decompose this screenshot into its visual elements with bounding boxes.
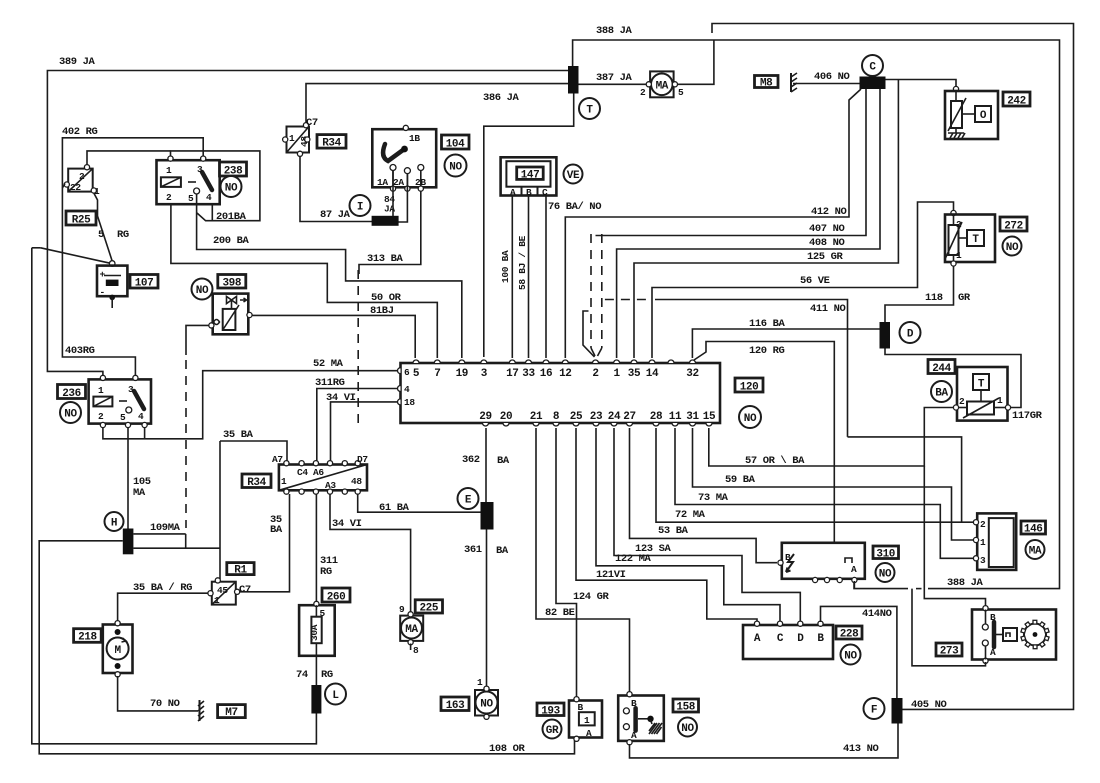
svg-text:A: A	[754, 633, 761, 645]
wire 116 BA (ECU pin 32 to connector D)	[692, 318, 879, 358]
svg-text:D: D	[797, 633, 804, 645]
svg-text:2: 2	[956, 219, 962, 230]
svg-text:2: 2	[592, 368, 598, 380]
component 225 (MA sensor)	[399, 604, 423, 656]
component 147 (diagnostic)	[501, 157, 557, 198]
node C circle	[862, 55, 883, 76]
svg-text:24: 24	[608, 411, 621, 423]
connector R34 bottom	[272, 454, 368, 494]
svg-text:C7: C7	[306, 117, 318, 129]
motor 218 (pump)	[103, 621, 133, 677]
wire R25 pin2 to relay coil line	[87, 151, 171, 165]
svg-text:I: I	[357, 202, 363, 214]
label 193	[537, 703, 564, 718]
label 238	[220, 162, 247, 178]
svg-text:225: 225	[419, 603, 438, 615]
svg-text:107: 107	[135, 278, 154, 290]
svg-text:403RG: 403RG	[65, 345, 95, 357]
node L circle	[325, 684, 346, 705]
fusible link R25	[64, 165, 100, 197]
wire 56 VE (ECU pin 14 to 272 pin 2)	[652, 202, 954, 358]
svg-text:272: 272	[1004, 221, 1023, 233]
svg-text:16: 16	[540, 368, 552, 380]
wire 82 BE (ECU pin 21 to 158 B)	[536, 428, 630, 692]
node E circle	[458, 488, 479, 509]
svg-text:411 NO: 411 NO	[810, 303, 846, 315]
svg-text:L: L	[332, 690, 339, 702]
svg-text:273: 273	[940, 646, 959, 658]
svg-text:260: 260	[327, 592, 346, 604]
wire 35 BA (236 pin 4 to R34 A7, junction to H and R1)	[133, 427, 287, 579]
label 272	[1000, 217, 1027, 233]
svg-text:1: 1	[214, 595, 220, 606]
svg-text:NO: NO	[225, 183, 238, 195]
wire 408 NO (ECU pin 1 to connector C)	[617, 89, 880, 358]
outer border top right / 405 NO	[712, 24, 1074, 712]
svg-text:313 BA: 313 BA	[367, 253, 404, 265]
svg-text:35: 35	[628, 368, 641, 380]
wire 123 SA (ECU pin 24 to 228 D)	[614, 428, 800, 622]
svg-text:21: 21	[530, 411, 543, 423]
battery 107	[97, 261, 127, 308]
svg-text:81BJ: 81BJ	[370, 305, 394, 317]
label 146	[1021, 521, 1046, 536]
svg-text:30A: 30A	[309, 624, 320, 641]
wire 117 GR (connector D to 244 pin 1)	[885, 349, 1043, 423]
svg-text:BA: BA	[935, 388, 948, 400]
svg-text:1B: 1B	[409, 133, 420, 144]
relay 238	[157, 156, 220, 204]
node D circle	[900, 322, 921, 343]
svg-text:11: 11	[669, 411, 682, 423]
svg-text:117GR: 117GR	[1012, 410, 1043, 422]
svg-text:R34: R34	[247, 477, 266, 489]
svg-text:RG: RG	[321, 669, 333, 681]
wire 73 MA (ECU pin 11 to 146 pin 3)	[675, 428, 974, 558]
svg-text:NO: NO	[681, 723, 694, 735]
wire 406 NO	[793, 71, 860, 84]
svg-text:NO: NO	[480, 699, 493, 711]
wire 105 MA (236 pin 5 to H block)	[128, 427, 151, 529]
svg-text:310: 310	[876, 549, 895, 561]
label 260	[322, 588, 350, 604]
svg-text:1: 1	[584, 715, 590, 726]
svg-text:NO: NO	[64, 409, 77, 421]
wire 362 BA (ECU pin 29 to connector E)	[462, 428, 510, 502]
svg-text:1: 1	[997, 395, 1003, 406]
wire 52 MA (236 pin 2 to ECU pin 6)	[103, 358, 398, 439]
svg-text:116 BA: 116 BA	[749, 318, 786, 330]
svg-text:2A: 2A	[393, 177, 404, 188]
wire 273 A return to 388 JA	[912, 589, 986, 666]
wire 53 BA (ECU pin 27 to 310 B)	[630, 428, 778, 563]
connector R1	[208, 578, 251, 606]
label NO for 104	[445, 155, 467, 177]
svg-text:48: 48	[351, 476, 362, 487]
wire 411 NO branch to 146 pin 2	[848, 437, 962, 522]
svg-text:412 NO: 412 NO	[811, 206, 847, 218]
wire 310 A to 388 JA line	[853, 581, 855, 589]
svg-text:193: 193	[541, 706, 560, 718]
svg-text:158: 158	[676, 702, 695, 714]
component 272 temp sensor	[945, 210, 995, 266]
node T circle	[579, 98, 600, 119]
label 120	[735, 378, 763, 394]
svg-text:RG: RG	[320, 566, 332, 578]
connector R34 top (C7)	[283, 117, 318, 156]
wire 35 BA / RG (R1 to motor 218)	[118, 582, 208, 622]
wire 403 RG (to 236 pin 3)	[62, 253, 135, 377]
svg-text:50 OR: 50 OR	[371, 292, 402, 304]
svg-text:87 JA: 87 JA	[320, 209, 351, 221]
svg-text:M: M	[114, 645, 121, 657]
svg-text:201BA: 201BA	[216, 211, 247, 223]
svg-text:C: C	[869, 62, 876, 74]
svg-text:414NO: 414NO	[862, 608, 892, 620]
svg-text:BA: BA	[496, 545, 509, 557]
wire 72 MA (ECU pin 28 to 146 pin 2)	[656, 428, 974, 522]
svg-text:398: 398	[222, 278, 241, 290]
svg-text:R1: R1	[234, 565, 247, 577]
component 242 oxygen sensor	[945, 86, 998, 139]
svg-text:408 NO: 408 NO	[809, 237, 845, 249]
svg-text:56 VE: 56 VE	[800, 275, 830, 287]
svg-text:5: 5	[120, 412, 126, 423]
svg-text:25: 25	[570, 411, 583, 423]
label R34 top	[317, 135, 346, 150]
wires 104 pins 1A 2A down to block	[393, 170, 407, 222]
wire 311 RG (ECU pin 4 to R34)	[315, 377, 398, 462]
svg-text:118: 118	[925, 292, 943, 304]
svg-text:2: 2	[959, 396, 965, 407]
wire 402 RG (to 238 pin 3)	[62, 126, 203, 253]
wire 58 BJ / BE (147 B to ECU pin 33)	[517, 196, 529, 359]
svg-text:73 MA: 73 MA	[698, 492, 729, 504]
svg-text:163: 163	[446, 700, 465, 712]
svg-text:T: T	[972, 234, 979, 246]
label NO for 228	[841, 645, 861, 665]
wire C to 242	[886, 80, 957, 88]
svg-text:34 VI: 34 VI	[326, 392, 356, 404]
wire 414 NO (228 B to connector F)	[821, 606, 897, 698]
svg-text:70 NO: 70 NO	[150, 698, 180, 710]
svg-text:RG: RG	[117, 229, 129, 241]
svg-text:C: C	[777, 633, 784, 645]
svg-text:228: 228	[840, 629, 859, 641]
svg-text:C7: C7	[239, 584, 251, 596]
svg-text:22: 22	[70, 182, 81, 193]
svg-text:H: H	[111, 518, 117, 530]
svg-text:T: T	[978, 379, 985, 391]
label MA for 146	[1026, 540, 1045, 559]
wire 70 NO (218 to ground M7)	[118, 676, 198, 711]
dashed boundary line mid	[357, 270, 359, 430]
label NO for 310	[876, 563, 895, 582]
svg-text:5: 5	[188, 193, 194, 204]
svg-text:1: 1	[166, 165, 172, 176]
svg-text:100 BA: 100 BA	[500, 250, 511, 283]
label 104	[442, 135, 470, 151]
wire R25 pin22 to border	[62, 184, 65, 189]
svg-text:57 OR \ BA: 57 OR \ BA	[745, 455, 805, 467]
svg-text:MA: MA	[1029, 546, 1042, 558]
svg-text:2: 2	[98, 411, 104, 422]
svg-text:407 NO: 407 NO	[809, 223, 845, 235]
svg-text:53 BA: 53 BA	[658, 525, 689, 537]
svg-text:-: -	[100, 287, 105, 298]
label NO for 158	[678, 718, 697, 737]
wire 411 NO (shield to connector D)	[605, 300, 848, 437]
svg-text:C: C	[542, 187, 548, 198]
svg-text:32: 32	[686, 368, 698, 380]
svg-text:244: 244	[932, 363, 951, 375]
svg-text:218: 218	[78, 632, 97, 644]
component 146	[973, 513, 1016, 570]
wire 109 MA (H block right)	[133, 522, 185, 548]
component 273	[972, 606, 1056, 664]
component 158 (switch with ground)	[618, 692, 664, 745]
wire 361 BA (connector E to 163)	[464, 530, 509, 688]
solenoid valve 398	[209, 294, 252, 335]
svg-text:T: T	[586, 105, 593, 117]
connector block E	[481, 502, 494, 530]
svg-text:R25: R25	[72, 215, 91, 227]
svg-text:52 MA: 52 MA	[313, 358, 344, 370]
label 107	[130, 275, 158, 290]
svg-text:74: 74	[296, 669, 308, 681]
wire 122 MA (ECU pin 23 to 228 C)	[596, 428, 780, 622]
ECU 120 control unit	[398, 360, 721, 426]
label 228	[836, 626, 862, 641]
svg-text:9: 9	[399, 604, 405, 615]
label 225	[415, 600, 442, 615]
wire 87 JA (R34 to block)	[300, 156, 373, 222]
shield dashed lines at ECU pin 2	[583, 234, 602, 357]
svg-text:388 JA: 388 JA	[947, 577, 984, 589]
wire 118 GR (272 pin 1 to connector D)	[885, 266, 971, 322]
svg-text:124 GR: 124 GR	[573, 591, 610, 603]
svg-text:147: 147	[521, 170, 540, 182]
svg-text:5: 5	[413, 368, 420, 380]
svg-text:1: 1	[956, 250, 962, 261]
wire 407 NO (ECU pin 2 to connector C)	[596, 89, 867, 236]
label NO for 238	[221, 176, 242, 197]
svg-text:M7: M7	[225, 707, 237, 719]
svg-text:BA: BA	[270, 524, 283, 536]
label R1	[227, 563, 254, 577]
svg-text:361: 361	[464, 544, 482, 556]
wire 388 JA inner border right side	[573, 25, 1060, 589]
svg-text:B: B	[817, 633, 824, 645]
connector block C	[860, 77, 886, 90]
svg-text:311RG: 311RG	[315, 377, 345, 389]
svg-text:8: 8	[413, 645, 419, 656]
node H circle	[105, 512, 124, 531]
wire 125 GR (ECU pin 35 up to C/242 wire)	[634, 80, 898, 359]
switch 104 (inertia switch)	[372, 125, 436, 191]
svg-text:12: 12	[559, 368, 571, 380]
wire 413 NO (158 A to connector F)	[630, 724, 899, 758]
svg-text:35 BA / RG: 35 BA / RG	[133, 582, 192, 594]
svg-text:5: 5	[98, 229, 104, 241]
svg-text:MA: MA	[656, 80, 669, 92]
label 218	[74, 629, 102, 644]
label 310	[873, 546, 899, 561]
svg-text:387 JA: 387 JA	[596, 72, 633, 84]
svg-text:2: 2	[980, 519, 986, 530]
wire H block left to 108 OR line	[39, 541, 574, 755]
ground M8	[755, 73, 798, 92]
svg-text:34 VI: 34 VI	[332, 518, 362, 530]
relay 236	[89, 375, 151, 427]
svg-text:NO: NO	[744, 413, 757, 425]
svg-text:1: 1	[289, 133, 295, 144]
dashed boundary line left	[185, 360, 187, 528]
label VE for 147	[564, 165, 583, 184]
svg-text:389 JA: 389 JA	[59, 56, 96, 68]
svg-text:1A: 1A	[377, 177, 388, 188]
svg-text:120 RG: 120 RG	[749, 345, 785, 357]
svg-text:4: 4	[138, 411, 144, 422]
svg-text:146: 146	[1024, 524, 1043, 536]
wire 201 BA (238 pin1 - pin5 link)	[171, 151, 260, 223]
wire from T block to ECU pin 3	[484, 94, 574, 358]
label 273	[936, 643, 962, 658]
svg-text:C4: C4	[297, 467, 308, 478]
svg-text:A6: A6	[313, 467, 324, 478]
label R25	[66, 211, 96, 227]
svg-text:402 RG: 402 RG	[62, 126, 98, 138]
svg-text:8: 8	[553, 411, 560, 423]
node I circle	[350, 195, 371, 216]
svg-text:82 BE: 82 BE	[545, 607, 575, 619]
connector block H	[123, 529, 134, 555]
svg-text:19: 19	[456, 368, 468, 380]
component 228	[743, 621, 833, 659]
fuse 260	[299, 601, 335, 655]
svg-text:3: 3	[481, 368, 488, 380]
svg-text:O: O	[980, 110, 987, 122]
label 244	[928, 360, 955, 376]
wire 100 BA (147 A to ECU pin 17)	[500, 196, 512, 359]
svg-text:2B: 2B	[415, 177, 426, 188]
svg-text:35 BA: 35 BA	[223, 429, 254, 441]
svg-text:MA: MA	[133, 487, 146, 499]
svg-text:31: 31	[686, 411, 699, 423]
svg-text:109MA: 109MA	[150, 522, 181, 534]
svg-text:BA: BA	[497, 455, 510, 467]
component 310	[778, 543, 865, 583]
connector block 84 JA	[372, 194, 399, 226]
wire 386 JA	[306, 84, 569, 127]
wire 200 BA (238 pin 5 to ECU pin 19)	[197, 194, 462, 358]
label GR for 193	[543, 720, 562, 739]
node F circle	[864, 698, 885, 719]
svg-text:1: 1	[477, 677, 483, 688]
label R34 bottom	[242, 474, 271, 489]
svg-text:F: F	[871, 705, 877, 717]
svg-text:200 BA: 200 BA	[213, 235, 250, 247]
component 193	[569, 697, 602, 742]
svg-text:121VI: 121VI	[596, 569, 626, 581]
svg-text:76 BA/ NO: 76 BA/ NO	[548, 201, 601, 213]
svg-text:120: 120	[740, 382, 759, 394]
wire 124 GR (ECU pin 8 to 193 B)	[556, 428, 610, 697]
svg-text:MA: MA	[405, 624, 418, 636]
wire 5 RG (R25 pin1 to battery +)	[94, 193, 129, 261]
motor MA (fuel pump) with pins 2 and 5	[579, 40, 714, 98]
svg-text:14: 14	[646, 368, 659, 380]
svg-text:28: 28	[650, 411, 663, 423]
svg-text:M8: M8	[760, 78, 773, 90]
svg-text:413 NO: 413 NO	[843, 743, 879, 755]
svg-text:388 JA: 388 JA	[596, 25, 633, 37]
svg-text:4: 4	[206, 192, 212, 203]
svg-text:A7: A7	[272, 454, 283, 465]
svg-text:58 BJ / BE: 58 BJ / BE	[517, 235, 528, 290]
label NO for 120	[739, 406, 761, 428]
wire R1 C7 to R34 pin 1	[238, 494, 290, 592]
svg-text:242: 242	[1007, 96, 1026, 108]
label BA for 244	[931, 381, 952, 402]
svg-text:+: +	[100, 269, 106, 280]
wire 74 RG (fuse to connector L)	[296, 656, 333, 685]
wire 311 RG (R34 C4 to fuse 260)	[316, 494, 337, 602]
svg-text:3: 3	[128, 384, 134, 395]
svg-text:7: 7	[434, 368, 440, 380]
svg-text:27: 27	[623, 411, 635, 423]
component 163	[475, 677, 498, 719]
label 398	[218, 275, 246, 290]
svg-text:29: 29	[479, 411, 491, 423]
label NO for 272	[1003, 237, 1022, 256]
wire 313 BA (104 pin 2B down-left)	[359, 191, 421, 274]
svg-text:NO: NO	[844, 651, 857, 663]
connector block L	[311, 685, 321, 714]
svg-text:406 NO: 406 NO	[814, 71, 850, 83]
svg-text:72 MA: 72 MA	[675, 509, 706, 521]
wire 412 NO (ECU pin 12 to connector C)	[565, 89, 861, 358]
wire 389 JA top border and label	[47, 56, 568, 379]
svg-text:GR: GR	[546, 725, 559, 737]
svg-text:1: 1	[613, 368, 620, 380]
svg-text:1: 1	[98, 385, 104, 396]
svg-text:4: 4	[404, 384, 410, 395]
svg-text:15: 15	[703, 411, 716, 423]
wire 59 BA (ECU pin 31 to 146 pin 1)	[693, 428, 975, 540]
svg-text:2: 2	[79, 171, 85, 182]
wire 120 RG (ECU pin 32 to 310 top)	[694, 342, 834, 543]
svg-text:D: D	[907, 329, 914, 341]
svg-text:18: 18	[404, 397, 415, 408]
svg-text:1: 1	[980, 537, 986, 548]
svg-text:VE: VE	[567, 170, 580, 182]
svg-text:A: A	[586, 728, 592, 739]
svg-text:362: 362	[462, 454, 480, 466]
svg-text:1: 1	[281, 476, 287, 487]
svg-text:2: 2	[166, 192, 172, 203]
wire 34 VI (ECU pin 18 to R34)	[326, 392, 398, 462]
svg-text:17: 17	[506, 368, 518, 380]
svg-text:33: 33	[522, 368, 535, 380]
svg-text:386 JA: 386 JA	[483, 92, 520, 104]
wire 57 OR BA (ECU pin 15 to 244 pin 2)	[709, 408, 986, 607]
label NO for 236	[60, 402, 81, 423]
wire 61 BA (R34 48 to connector E)	[358, 494, 481, 514]
battery supply diagonal and left drop (B supply)	[32, 248, 317, 744]
wire 398 left pin down	[186, 325, 209, 355]
svg-text:GR: GR	[958, 292, 971, 304]
